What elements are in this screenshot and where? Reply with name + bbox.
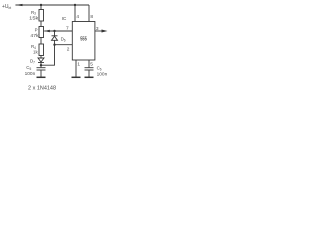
svg-text:555: 555 <box>80 36 87 42</box>
diode D7 label <box>30 59 35 65</box>
svg-text:4: 4 <box>76 14 79 20</box>
svg-text:100n: 100n <box>25 71 36 77</box>
svg-text:P: P <box>35 27 38 32</box>
diodes type note 2 x 1N4148 <box>28 86 56 92</box>
resistor R3 label <box>29 10 39 20</box>
wire D7 to C5 node <box>40 63 42 66</box>
wire P to R4 <box>40 38 42 45</box>
supply arrow pointing left <box>15 4 23 6</box>
pin 5 label <box>90 62 93 68</box>
potentiometer P label <box>30 27 39 38</box>
wire R3 to P <box>40 21 42 27</box>
node +Ubt supply label <box>2 4 11 10</box>
svg-text:8: 8 <box>90 14 93 20</box>
IC label <box>62 16 67 22</box>
svg-text:C5: C5 <box>26 65 31 71</box>
ground at pin 1 <box>72 76 81 78</box>
svg-text:47k: 47k <box>30 33 39 38</box>
svg-text:D7: D7 <box>30 59 35 65</box>
capacitor C5 <box>40 65 42 67</box>
resistor R4 body <box>39 44 44 56</box>
wire pin 3 output <box>95 30 102 32</box>
svg-text:15k: 15k <box>29 15 39 20</box>
wire top supply rail <box>16 4 90 6</box>
555 value label <box>80 36 87 42</box>
output arrow pointing right <box>102 30 108 33</box>
op IC 555 box <box>72 22 95 61</box>
capacitor C6 label <box>97 66 108 78</box>
diode D6 label <box>61 37 66 43</box>
pin 8 label <box>90 14 93 20</box>
potentiometer P wiper arrow <box>44 30 50 33</box>
resistor R3 body <box>39 10 44 22</box>
svg-text:5: 5 <box>90 62 93 68</box>
svg-text:+Ubt: +Ubt <box>2 4 11 10</box>
potentiometer P body <box>39 27 44 38</box>
wire pin 5 to C6 <box>88 60 90 67</box>
node junction dot pin2 node <box>53 44 55 46</box>
capacitor C5 label <box>25 65 36 77</box>
wire pin 4 drop <box>74 5 76 22</box>
wire pin 8 drop <box>88 5 90 22</box>
wire wiper to pin7 node <box>44 30 72 32</box>
svg-text:1: 1 <box>77 62 80 68</box>
wire R4 to D7 <box>40 56 42 59</box>
svg-text:1k: 1k <box>33 49 38 54</box>
node junction dot at pin4 drop <box>74 4 76 6</box>
pin 4 label <box>76 14 79 20</box>
wire pin 1 to ground <box>75 60 77 77</box>
wire pin2 node to IC <box>55 44 73 46</box>
svg-text:100n: 100n <box>97 71 108 77</box>
diode D6 (pointing up) <box>52 35 58 37</box>
capacitor C6 <box>85 67 94 69</box>
pin 2 label <box>67 46 70 52</box>
svg-text:C6: C6 <box>97 66 102 72</box>
pin 3 label <box>96 26 99 32</box>
node junction dot at R3 top <box>40 4 42 6</box>
wire pin2 node down to C5 node <box>41 45 55 65</box>
node junction dot D7/C5 <box>40 64 42 66</box>
svg-text:D6: D6 <box>61 37 66 43</box>
svg-text:7: 7 <box>66 25 69 31</box>
ground at C6 <box>85 76 94 78</box>
resistor R4 label <box>31 44 38 54</box>
wire D6 to pin2 node <box>54 40 56 44</box>
svg-text:2 x 1N4148: 2 x 1N4148 <box>28 86 56 92</box>
pin 1 label <box>77 62 80 68</box>
ground at C5 <box>37 76 46 78</box>
diode D7 (pointing down) <box>38 58 44 62</box>
wire to D6 <box>54 31 56 36</box>
wire rail to R3 <box>40 5 42 10</box>
pin 7 label <box>66 25 69 31</box>
svg-text:IC: IC <box>62 16 67 22</box>
node junction dot wiper/D6 top <box>53 30 55 32</box>
svg-text:2: 2 <box>67 46 70 52</box>
